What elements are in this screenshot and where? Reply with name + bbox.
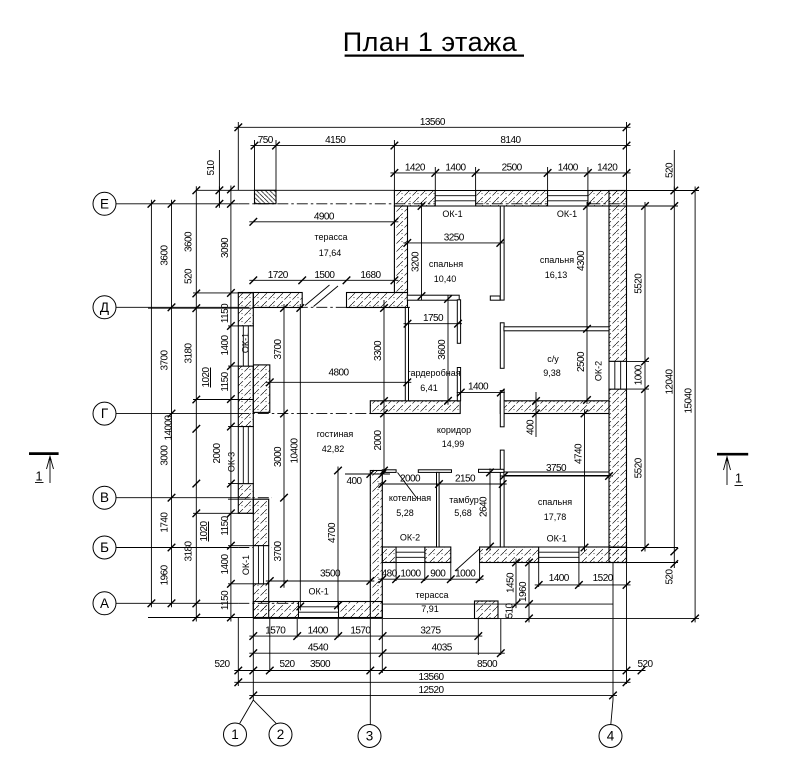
svg-text:терасса: терасса [314,232,347,242]
svg-text:3200: 3200 [411,251,422,272]
dim 14000 overall left [150,200,152,608]
svg-text:ОК-1: ОК-1 [241,555,251,575]
svg-text:1: 1 [735,472,742,486]
svg-text:спальня: спальня [429,259,463,269]
title underline [345,54,524,56]
svg-text:3750: 3750 [546,463,567,474]
svg-text:ОК-1: ОК-1 [547,534,567,544]
boiler room top wall left piece [382,470,396,473]
svg-text:3275: 3275 [420,626,441,637]
section mark 1 right thick line [717,453,748,456]
right chain 5520/1000/5520 [644,202,646,552]
bottom terrace right edge [612,563,614,619]
axis 2 circle [269,723,292,746]
dim 1400 corridor door [457,392,505,394]
terrace bottom wall right segment [347,293,408,308]
axis 2 leader with fan [240,618,277,724]
svg-text:3000: 3000 [160,445,171,466]
svg-text:750: 750 [258,135,274,146]
svg-text:ОК-2: ОК-2 [400,533,420,543]
axis 1 circle [224,723,247,746]
window OK-1 left wall lower [253,546,268,584]
svg-text:520: 520 [214,659,230,670]
dim line small extensions [345,300,536,474]
svg-text:510: 510 [505,603,516,619]
svg-text:1150: 1150 [220,590,231,610]
dim 4300/2500 bedroom 16.13 and wc vertical [586,202,588,404]
top exterior wall right corner segment [588,191,627,207]
svg-text:5520: 5520 [634,457,645,478]
svg-text:1000: 1000 [455,569,476,580]
svg-text:1500: 1500 [314,270,335,281]
left chain 3600/520/3180/1020/1020/3180 [195,186,197,621]
svg-text:коридор: коридор [437,425,471,435]
right chain 520/12040/520 [673,187,675,569]
svg-text:ОК-1: ОК-1 [308,587,328,597]
terrace bottom wall left segment [253,293,302,308]
svg-text:1400: 1400 [220,334,231,355]
boiler room door swing [398,473,418,499]
svg-text:13560: 13560 [420,117,446,128]
svg-text:1570: 1570 [265,626,286,637]
svg-text:3: 3 [366,729,374,744]
svg-text:3600: 3600 [184,231,195,252]
svg-text:3700: 3700 [273,338,284,359]
axis Г line [116,413,238,415]
svg-text:1740: 1740 [160,512,171,533]
svg-text:4800: 4800 [329,368,350,379]
bottom exterior wall segment left of boiler window [382,547,396,563]
right exterior wall lower segment [609,389,627,562]
dim row 4540/4035 [249,652,504,654]
window OK-2 right wall [609,361,627,389]
top exterior wall segment (axis 3 to window OK-1) [394,191,435,207]
svg-text:3000: 3000 [273,446,284,467]
svg-text:5520: 5520 [634,273,645,294]
svg-text:1150: 1150 [220,371,231,391]
svg-text:900: 900 [430,569,446,580]
left extension lines [148,293,253,618]
svg-text:2500: 2500 [502,162,523,173]
svg-text:520: 520 [184,268,195,284]
axis Б line [116,547,238,549]
svg-text:1960: 1960 [518,581,529,602]
window OK-1 living room [299,602,339,618]
svg-text:1400: 1400 [308,626,329,637]
svg-text:8500: 8500 [477,659,498,670]
svg-text:2: 2 [277,727,285,742]
dim 4700 living room vertical [337,467,339,610]
axis В line [116,497,238,499]
axis Е circle [93,192,116,215]
boiler room right wall [437,472,440,547]
svg-text:4900: 4900 [314,211,335,222]
left exterior wall segment below OK-3 [238,484,253,514]
dim 4800 living room top [266,381,412,383]
left exterior wall segment between windows [238,366,253,427]
svg-text:520: 520 [279,659,295,670]
svg-text:Б: Б [100,540,109,555]
bottom terrace lower edge [253,617,613,619]
axis Г circle [93,402,116,425]
axis 3 leader [369,619,371,725]
svg-text:3500: 3500 [320,569,341,580]
window OK-1 left wall upper [238,326,253,366]
svg-text:2150: 2150 [455,474,476,485]
dim 3200 bedroom 10.40 vertical [421,202,423,300]
svg-text:котельная: котельная [389,493,431,503]
terrace top edge line [196,189,394,191]
section mark 1 left thick line [29,452,59,455]
svg-text:7,91: 7,91 [421,604,439,614]
dim 10400 interior vertical [299,304,301,610]
dim row 13560 bottom [234,681,630,683]
dim 1400/1520 bottom row [535,584,631,586]
dim 3250 bedroom 10.40 [403,242,504,244]
dim 3750 bedroom 17.78 [500,475,613,477]
svg-text:спальня: спальня [540,255,574,265]
wardrobe right wall lower segment [457,368,460,401]
svg-text:2000: 2000 [373,429,384,450]
svg-text:План 1 этажа: План 1 этажа [343,27,518,57]
terrace door swing leaf 1 [305,285,330,306]
left wall chain 3090/1150/1400/1150/2000/1150/1400/1150 [230,186,232,622]
svg-text:17,78: 17,78 [544,512,567,522]
dim 400 wall thickness vertical at wc [535,397,537,418]
axis А line [116,602,238,604]
dim 1750 wardrobe [404,323,463,325]
partition wc left wall seg2 [500,323,504,369]
svg-text:10,40: 10,40 [434,274,457,284]
svg-text:1520: 1520 [593,573,614,584]
boiler room top wall T-piece [418,470,451,473]
svg-text:3180: 3180 [184,540,195,561]
svg-text:1150: 1150 [220,515,231,535]
svg-text:1420: 1420 [405,162,426,173]
dim 3600 wardrobe vertical [447,295,449,405]
svg-text:3300: 3300 [373,340,384,361]
bottom exterior wall segment between boiler window and door [425,547,451,563]
svg-text:1960: 1960 [160,564,171,585]
dim 3500 above living room window [266,580,375,582]
svg-text:4700: 4700 [327,522,338,543]
dim 3300/2000 vertical at corridor [383,304,385,475]
bottom terrace upper edge [382,603,613,605]
svg-text:14000: 14000 [164,414,175,440]
entrance door swing [455,548,480,571]
svg-text:1680: 1680 [360,270,381,281]
dim 2000/2150 boiler and vestibule [378,483,506,485]
axis В circle [93,486,116,509]
svg-text:1720: 1720 [268,270,289,281]
wall between terrace and bedroom 10.40 [394,206,407,293]
partition wc left wall seg3 [500,391,504,427]
svg-text:17,64: 17,64 [319,248,342,258]
terrace door swing leaf 2 [314,286,339,307]
top exterior wall segment between windows [476,191,548,207]
dim 510 top left [218,186,220,208]
top extension lines [219,122,674,206]
svg-text:спальня: спальня [538,497,572,507]
dim 4900 terrace width [249,221,398,223]
svg-text:3700: 3700 [273,540,284,561]
left axis chain 3600/3700/3000/1740/1960 [171,200,173,608]
axis 4 circle [599,725,622,748]
interior pier at axis Г [253,365,269,413]
partition return at door to corridor [490,296,500,300]
svg-text:2000: 2000 [400,474,421,485]
svg-text:ОК-2: ОК-2 [594,361,604,381]
svg-text:1000: 1000 [400,569,421,580]
svg-text:9,38: 9,38 [543,368,561,378]
svg-text:ОК-1: ОК-1 [241,333,251,353]
bottom wall living room right segment [339,602,383,618]
dim 750/4150/8140 row [251,145,631,147]
svg-text:1750: 1750 [423,313,444,324]
svg-text:16,13: 16,13 [545,270,568,280]
axis Д circle [93,296,116,319]
living room right wall [370,471,382,618]
svg-text:520: 520 [665,569,676,585]
bottom exterior wall segment under bedroom 17.78 [480,547,539,563]
svg-text:5,68: 5,68 [454,508,472,518]
axis Б circle [93,536,116,559]
svg-text:8140: 8140 [500,135,521,146]
svg-text:3600: 3600 [437,339,448,360]
svg-text:тамбур: тамбур [449,495,478,505]
svg-text:1: 1 [36,470,43,484]
svg-text:4540: 4540 [308,643,329,654]
svg-text:В: В [100,490,109,505]
dim row 1570/1400/1570/3275 [249,635,482,637]
svg-text:1400: 1400 [220,553,231,574]
dim 4740 vertical [584,410,586,552]
svg-text:1020: 1020 [199,520,210,541]
svg-text:12520: 12520 [418,685,444,696]
vestibule right wall seg4 [500,450,504,547]
dim 3700/3000/3700 interior left vertical [283,304,285,588]
svg-text:1: 1 [231,727,239,742]
svg-text:1400: 1400 [445,162,466,173]
axis Д line [116,306,238,308]
svg-text:ОК-1: ОК-1 [557,209,577,219]
svg-text:1020: 1020 [201,366,212,387]
dim row 12520 bottom [249,694,617,696]
svg-text:520: 520 [637,659,653,670]
svg-text:1420: 1420 [597,162,618,173]
svg-text:1400: 1400 [549,573,570,584]
bottom extension lines [270,563,627,685]
svg-text:400: 400 [526,419,537,435]
svg-text:10400: 10400 [290,437,301,463]
dim row 520/520/3500/8500/520 [234,670,645,672]
svg-text:42,82: 42,82 [322,444,345,454]
dim 13560 top row [234,126,630,128]
svg-text:4300: 4300 [576,250,587,271]
svg-text:4035: 4035 [432,643,453,654]
svg-text:3250: 3250 [444,232,465,243]
svg-text:15040: 15040 [684,387,695,413]
dim 1720/1500/1680 terrace row [249,279,398,281]
window OK-1 bedroom 17.78 [539,547,579,563]
svg-text:ОК-1: ОК-1 [442,209,462,219]
wardrobe right wall upper segment [457,300,460,344]
axis А circle [93,592,116,615]
svg-text:1400: 1400 [468,382,489,393]
svg-text:1400: 1400 [558,162,579,173]
bedroom 17.78 top partition [504,472,609,476]
bottom exterior wall right corner segment [579,547,627,563]
svg-text:5,28: 5,28 [396,508,414,518]
svg-text:2640: 2640 [479,496,490,517]
lower-left exterior wall bottom corner segment [253,584,268,618]
svg-text:480: 480 [382,569,398,580]
wc top partition [504,327,609,331]
partition between bedrooms seg1 [500,206,504,300]
svg-text:4: 4 [607,729,615,744]
svg-text:3600: 3600 [159,245,170,266]
svg-text:3090: 3090 [220,237,231,258]
svg-text:гардеробная: гардеробная [407,368,460,378]
dim 2640 vestibule vertical [489,468,491,550]
svg-text:с/у: с/у [547,354,559,364]
bottom wall living room left segment [253,602,298,618]
bedroom 10.40 bottom partition [407,295,459,300]
svg-text:1150: 1150 [220,303,231,323]
dim 1960/510 terrace [528,559,530,623]
svg-text:ОК-3: ОК-3 [227,452,237,472]
svg-text:14,99: 14,99 [442,439,465,449]
axis 1 leader [237,618,239,687]
svg-text:3180: 3180 [184,342,195,363]
svg-text:Г: Г [101,406,109,421]
axis 4 leader [611,619,613,725]
window OK-2 boiler room [396,547,425,563]
svg-text:510: 510 [206,160,217,176]
svg-text:терасса: терасса [415,590,448,600]
dim 1450 terrace [515,559,517,609]
right exterior wall upper segment [609,191,627,362]
svg-text:4740: 4740 [574,443,585,464]
lower-left exterior wall upper segment [253,499,268,546]
svg-text:1570: 1570 [350,626,371,637]
svg-text:400: 400 [346,476,362,487]
svg-text:2500: 2500 [576,351,587,372]
svg-text:2000: 2000 [212,442,223,463]
svg-text:12040: 12040 [665,368,676,394]
svg-text:А: А [100,596,109,611]
bottom terrace pier [475,601,499,619]
svg-text:520: 520 [665,162,676,178]
window OK-1 top left [435,191,475,207]
section mark 1 left arrow [49,456,51,483]
vestibule top wall bar [479,469,504,472]
dim 1420/1400/2500/1400/1420 row [390,172,630,174]
dim 15040 overall right [694,187,696,623]
interior bearing wall right segment [500,401,609,414]
svg-text:1000: 1000 [634,364,645,385]
section mark 1 right arrow [726,457,728,486]
left exterior wall segment above upper window [238,293,253,326]
right extension lines [609,191,699,619]
interior bearing wall left segment [370,401,460,414]
dim 480/1000/900/1000 bottom row [378,578,483,580]
svg-text:1450: 1450 [506,572,517,593]
svg-text:гостиная: гостиная [317,429,354,439]
svg-text:13560: 13560 [418,672,444,683]
svg-text:3700: 3700 [160,349,171,370]
svg-text:Д: Д [100,300,109,315]
top-left pier on terrace [255,190,277,203]
wardrobe left wall [405,308,408,401]
svg-text:4150: 4150 [325,135,346,146]
svg-text:Е: Е [100,196,109,211]
dim 400 wall thickness horizontal [366,473,386,475]
window OK-3 left wall [238,427,253,484]
window OK-1 top right [548,191,588,207]
svg-text:6,41: 6,41 [420,383,438,393]
axis 3 circle [358,725,381,748]
svg-text:3500: 3500 [310,659,331,670]
axis Е line [116,203,238,205]
